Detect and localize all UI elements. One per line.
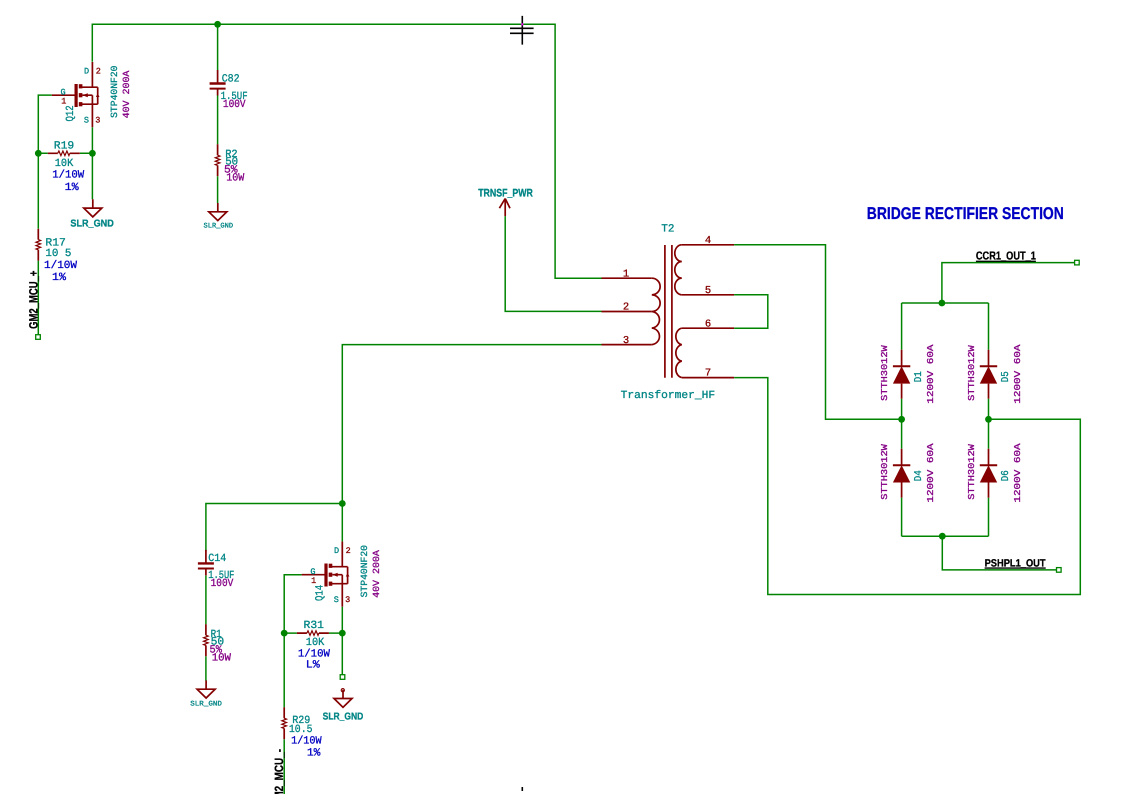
terminal square PSHPL1_OUT bbox=[1057, 568, 1062, 573]
svg-text:6: 6 bbox=[705, 318, 711, 330]
svg-text:D5: D5 bbox=[1000, 371, 1012, 382]
junction lower drain tap bbox=[339, 500, 346, 507]
wire R1 bottom bbox=[205, 656, 207, 680]
wire R2 bottom bbox=[217, 176, 219, 203]
svg-text:SLR_GND: SLR_GND bbox=[70, 218, 113, 229]
svg-text:STTH3012W: STTH3012W bbox=[880, 444, 890, 500]
svg-text:5: 5 bbox=[705, 285, 711, 297]
T2 secondary winding pins 4-7 bbox=[682, 245, 734, 378]
svg-text:100V: 100V bbox=[223, 99, 246, 111]
junction bridge mid-left bbox=[898, 416, 905, 423]
wire D1 bottom / D4 top bbox=[902, 399, 989, 449]
junction bridge top bbox=[939, 300, 946, 307]
svg-text:C14: C14 bbox=[208, 553, 226, 565]
wire T2 pin4 to bridge bbox=[734, 245, 901, 419]
svg-text:1/10W: 1/10W bbox=[298, 648, 330, 660]
svg-text:7: 7 bbox=[705, 368, 711, 380]
svg-text:10W: 10W bbox=[226, 172, 244, 184]
terminal square unconnected bbox=[340, 675, 345, 680]
svg-text:SLR_GND: SLR_GND bbox=[204, 223, 234, 231]
junction top C82 tap bbox=[214, 21, 221, 28]
resistor R29 bbox=[282, 707, 322, 759]
wire T2 pin7 to bridge right bbox=[734, 378, 1080, 595]
svg-text:Transformer_HF: Transformer_HF bbox=[621, 390, 716, 402]
wire top bus bbox=[92, 24, 601, 278]
transistor Q12 bbox=[52, 62, 133, 127]
svg-text:D4: D4 bbox=[913, 470, 925, 481]
label PSHPL1_OUT bbox=[985, 557, 1047, 569]
junction R31 left bbox=[281, 630, 288, 637]
diode D5 bbox=[967, 344, 1023, 404]
svg-text:Q12: Q12 bbox=[65, 105, 77, 121]
wire Q12 source to junction bbox=[91, 127, 93, 199]
svg-text:3: 3 bbox=[623, 335, 629, 347]
svg-text:4: 4 bbox=[705, 235, 711, 247]
ground SLR_GND floating with circle bbox=[323, 689, 364, 723]
svg-text:1%: 1% bbox=[307, 748, 321, 760]
junction R31 right bbox=[339, 630, 346, 637]
svg-text:1200V 60A: 1200V 60A bbox=[1013, 443, 1023, 503]
svg-text:100V: 100V bbox=[211, 578, 234, 590]
svg-text:1%: 1% bbox=[65, 182, 79, 194]
svg-text:10 5: 10 5 bbox=[45, 248, 71, 260]
svg-text:SLR_GND: SLR_GND bbox=[190, 700, 222, 708]
svg-text:1/10W: 1/10W bbox=[52, 170, 84, 182]
svg-text:2: 2 bbox=[623, 302, 629, 314]
resistor R19 bbox=[48, 141, 85, 195]
terminal square CCR1_OUT_1 bbox=[1075, 260, 1080, 265]
cursor dot bbox=[521, 23, 523, 25]
wire R17 bottom bbox=[37, 261, 39, 335]
wire Q14 source bbox=[341, 607, 343, 633]
wire to C14 bbox=[206, 504, 342, 552]
svg-text:1200V 60A: 1200V 60A bbox=[926, 443, 936, 503]
wire CCR1_OUT_1 bbox=[942, 263, 1075, 303]
svg-text:T2: T2 bbox=[661, 224, 674, 236]
diode D4 bbox=[880, 443, 936, 503]
resistor R2 bbox=[215, 144, 244, 184]
junction R19 right bbox=[89, 150, 96, 157]
svg-text:1/10W: 1/10W bbox=[44, 260, 77, 272]
svg-text:10.5: 10.5 bbox=[289, 724, 313, 736]
svg-text:Q14: Q14 bbox=[315, 584, 327, 601]
svg-text:SLR_GND: SLR_GND bbox=[323, 712, 364, 723]
diode D6 bbox=[967, 443, 1023, 503]
junction bridge mid-right bbox=[985, 416, 992, 423]
graphic bottom tick bbox=[521, 787, 523, 791]
wire R29 bottom bbox=[283, 739, 285, 794]
wire Q14 drain bbox=[341, 504, 343, 542]
svg-text:10K: 10K bbox=[306, 637, 325, 649]
transformer T2 bbox=[602, 224, 735, 402]
T2 primary winding pins 1-3 bbox=[602, 278, 652, 344]
wire bridge top bar bbox=[902, 303, 989, 350]
wire R29 top bbox=[283, 633, 285, 707]
wire PSHPL1_OUT bbox=[942, 536, 1057, 570]
label CCR1_OUT_1 bbox=[976, 251, 1036, 263]
wire TRNSF_PWR to T2 pin2 bbox=[505, 216, 601, 311]
svg-text:1: 1 bbox=[623, 268, 629, 280]
svg-text:GM2_MCU_+: GM2_MCU_+ bbox=[26, 271, 40, 329]
wire C82 to R2 bbox=[217, 96, 219, 145]
svg-text:1200V 60A: 1200V 60A bbox=[1013, 344, 1023, 404]
graphic cursor cross bbox=[510, 16, 534, 45]
svg-text:10K: 10K bbox=[55, 158, 74, 170]
resistor R31 bbox=[297, 620, 330, 672]
wire R17 top bbox=[37, 153, 39, 228]
resistor R1 bbox=[204, 624, 232, 664]
svg-text:BRIDGE RECTIFIER SECTION: BRIDGE RECTIFIER SECTION bbox=[867, 204, 1064, 223]
wire R19 stubs bbox=[38, 152, 92, 154]
svg-text:STTH3012W: STTH3012W bbox=[967, 444, 977, 500]
svg-text:STTH3012W: STTH3012W bbox=[880, 345, 890, 401]
svg-text:GM2_MCU_-: GM2_MCU_- bbox=[272, 749, 286, 794]
wire Q14 gate bbox=[284, 575, 301, 633]
svg-text:1%: 1% bbox=[52, 272, 66, 284]
resistor R17 bbox=[36, 229, 77, 284]
capacitor CL4 bbox=[198, 550, 235, 590]
svg-text:L%: L% bbox=[306, 660, 320, 672]
terminal square GM2_MCU_+ bbox=[36, 335, 41, 340]
wire T2 pin3 to lower section bbox=[342, 345, 601, 504]
wire C82 top bbox=[217, 24, 219, 70]
T2 core bbox=[665, 245, 672, 378]
ground SLR_GND under R2 bbox=[204, 203, 234, 231]
svg-text:R31: R31 bbox=[304, 620, 325, 632]
transistor Q14 bbox=[302, 542, 383, 607]
svg-text:C82: C82 bbox=[222, 73, 240, 85]
wire below R31 right junction bbox=[341, 633, 343, 675]
ground SLR_GND under R1 bbox=[190, 680, 222, 708]
wire C14 to R1 bbox=[205, 576, 207, 625]
diode D1 bbox=[880, 344, 936, 404]
svg-text:STTH3012W: STTH3012W bbox=[967, 345, 977, 401]
junction bridge bottom bbox=[939, 533, 946, 540]
svg-text:R19: R19 bbox=[54, 141, 75, 153]
svg-text:TRNSF_PWR: TRNSF_PWR bbox=[478, 188, 533, 200]
svg-text:D1: D1 bbox=[913, 371, 925, 382]
svg-text:D6: D6 bbox=[1000, 470, 1012, 481]
wire bridge bottom bar bbox=[902, 498, 989, 537]
svg-text:10W: 10W bbox=[212, 653, 232, 665]
junction R19 left bbox=[35, 150, 42, 157]
ground SLR_GND under Q12 bbox=[70, 199, 113, 229]
svg-text:1/10W: 1/10W bbox=[291, 735, 322, 747]
power label TRNSF_PWR bbox=[478, 188, 533, 217]
wire Q12 gate bbox=[38, 95, 51, 153]
wire R31 stubs bbox=[284, 632, 342, 634]
svg-text:1200V 60A: 1200V 60A bbox=[926, 344, 936, 404]
capacitor C82 bbox=[210, 70, 248, 111]
wire T2 pin5 to pin6 bbox=[734, 295, 768, 328]
